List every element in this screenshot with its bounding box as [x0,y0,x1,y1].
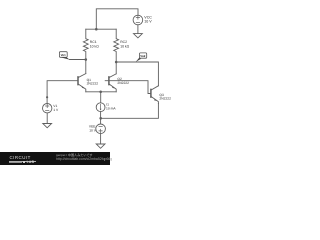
label V1 value [53,104,59,112]
label Q1 value [87,78,99,86]
wire I1 to VEE [100,112,102,124]
footer text [56,154,93,157]
svg-text:10 kΩ: 10 kΩ [90,44,99,48]
transistor Q2 [109,74,116,92]
svg-text:1 V: 1 V [53,108,59,112]
voltage source VCC [133,15,143,25]
voltage source V1 [43,104,52,113]
wire Vo2 rail to Q3 collector [116,62,158,86]
wire VEE to ground [100,134,102,144]
junction emitter rail [99,91,102,94]
svg-text:10 mA: 10 mA [106,107,116,111]
resistor RC1 [83,29,88,59]
wire top VCC feed [96,9,138,29]
svg-text:10 V: 10 V [144,20,152,24]
voltage source VEE [96,124,106,134]
label Q2 value [117,77,129,85]
CircuitLab logo [10,156,31,160]
wire V1 to ground [46,113,48,124]
ground (VCC) [134,34,143,38]
svg-text:Vo2: Vo2 [140,54,145,58]
wire Q1 base to V1 [47,81,78,104]
wire Vo1 to Q1 collector [70,59,86,61]
label VEE value [89,125,97,133]
svg-text:2N2222: 2N2222 [159,97,171,101]
wire Q2 collector [115,62,117,74]
junction VEE rail [99,117,102,120]
wire tail to current source [100,92,102,103]
current source I1 [96,103,105,112]
junction Vo1 node [85,58,88,61]
label Vo1 [61,53,66,57]
svg-text:2N2222: 2N2222 [87,82,99,86]
svg-text:2N2222: 2N2222 [117,81,129,85]
emitter rail Q1 Q2 [86,91,116,93]
wire Q3 emitter to VEE rail [101,104,159,119]
junction top rail [95,28,98,31]
resistor RC2 [114,29,119,62]
label RC1 value [90,40,99,48]
wire VCC to ground [137,25,139,34]
wire Q1 collector [85,60,87,74]
svg-text:Vo1: Vo1 [61,53,66,57]
ground (V1) [43,124,52,128]
label Q3 value [159,93,171,101]
label I1 value [106,103,116,111]
label RC2 value [120,40,129,48]
svg-text:10 V: 10 V [89,129,97,133]
CircuitLab footer bar [0,152,110,165]
transistor Q1 [78,74,86,92]
ground (VEE) [96,144,105,148]
node Vo1 flag [59,52,69,60]
label Vo2 [140,54,145,58]
transistor Q3 [151,86,159,104]
label VCC value [144,16,152,24]
wire collector rail [86,28,116,30]
junction RC2 Vo2 node [115,61,118,64]
node Vo2 flag [136,53,147,62]
svg-text:10 kΩ: 10 kΩ [120,44,129,48]
wire Q2 base to Q3 base [105,81,151,94]
junction V1 wire [46,96,48,98]
